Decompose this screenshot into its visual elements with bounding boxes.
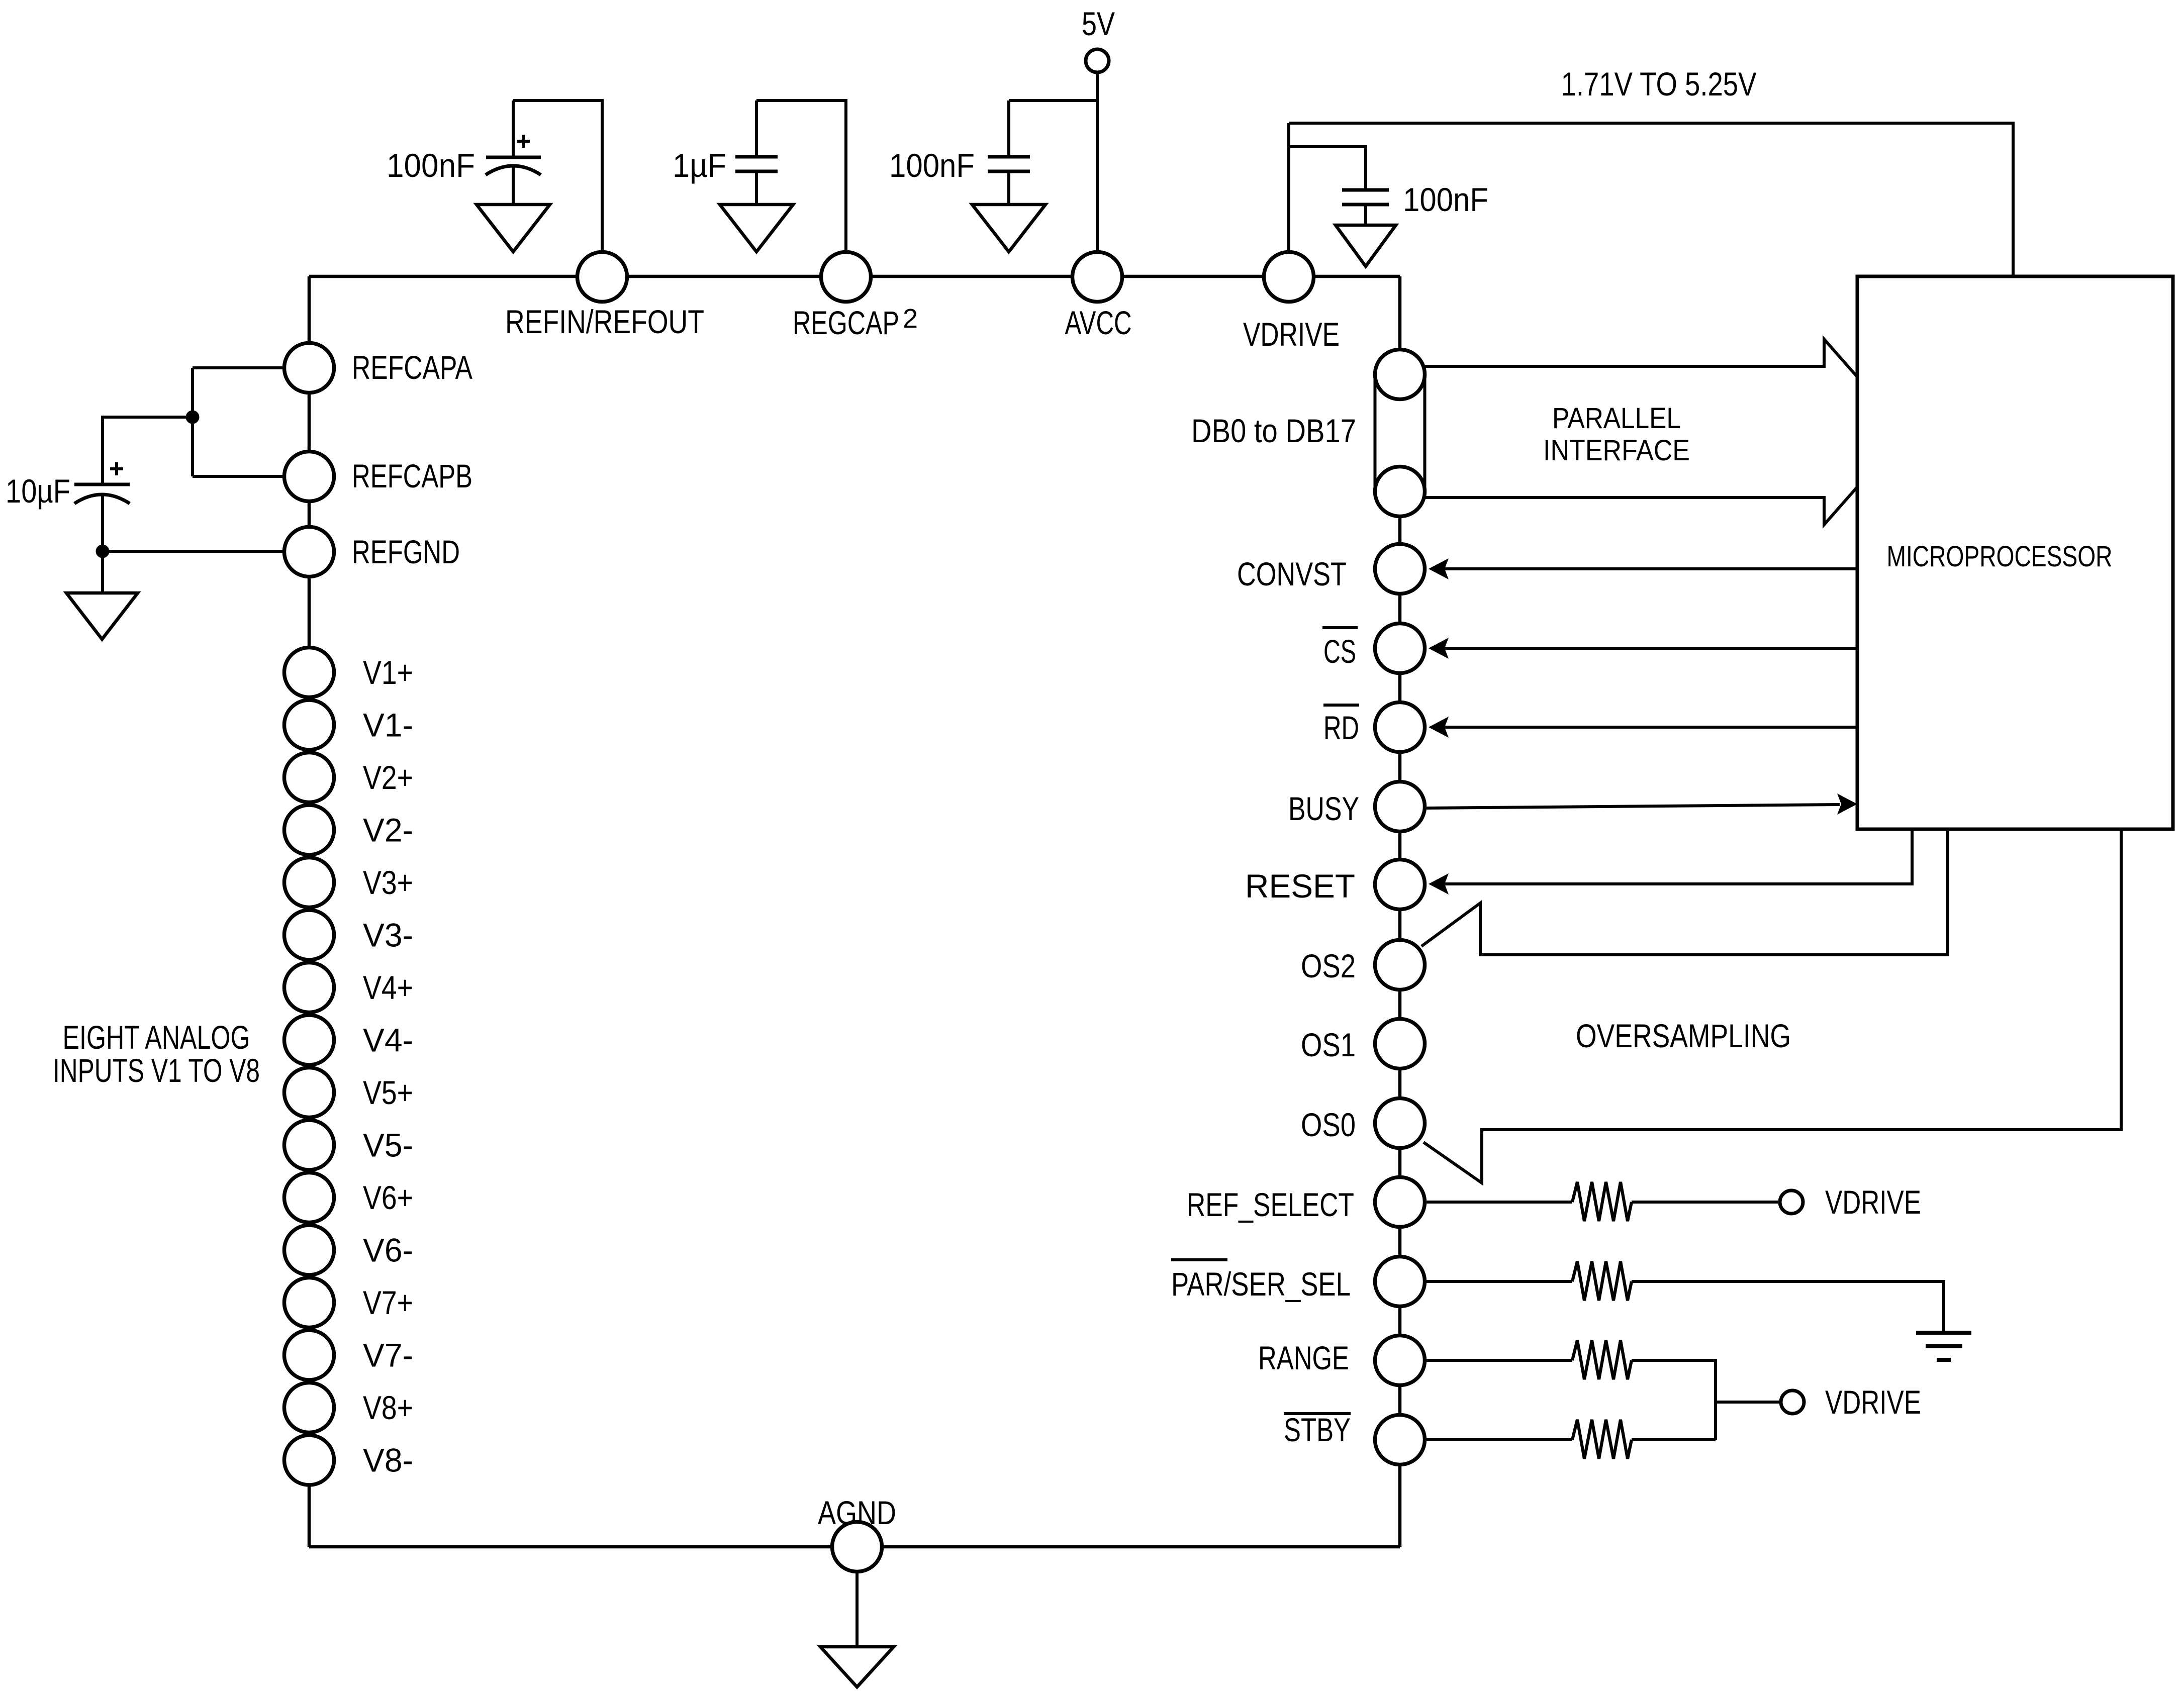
- wire REFIN/REFOUT loop: [513, 101, 602, 254]
- label OS0: [1301, 1106, 1356, 1143]
- ADC chip right edge upper (wire): [1398, 276, 1402, 374]
- label VDRIVE net 1: [1825, 1183, 1921, 1221]
- svg-text:OS1: OS1: [1301, 1026, 1356, 1063]
- svg-text:V2-: V2-: [363, 812, 413, 849]
- label REFIN/REFOUT: [505, 303, 704, 340]
- svg-text:V8-: V8-: [363, 1442, 413, 1479]
- svg-text:100nF: 100nF: [1403, 181, 1488, 218]
- svg-text:V7-: V7-: [363, 1337, 413, 1374]
- node VDRIVE terminal 1: [1780, 1190, 1803, 1214]
- svg-text:V5-: V5-: [363, 1127, 413, 1164]
- svg-text:PAR/SER_SEL: PAR/SER_SEL: [1171, 1265, 1351, 1303]
- svg-text:REFCAPB: REFCAPB: [352, 457, 472, 494]
- label V7+: [363, 1284, 413, 1321]
- pin V4-: [284, 1015, 334, 1065]
- svg-text:1.71V TO 5.25V: 1.71V TO 5.25V: [1561, 65, 1757, 103]
- label VDRIVE top: [1243, 316, 1340, 353]
- pin OS1: [1375, 1019, 1425, 1069]
- wire REFCAP bracket: [191, 368, 194, 476]
- microprocessor box: [1857, 276, 2173, 829]
- svg-text:REGCAP: REGCAP: [793, 304, 899, 341]
- label PAR/SER_SEL: [1171, 1265, 1351, 1303]
- label C3 100nF: [889, 147, 975, 184]
- wire REFGND stub: [103, 550, 285, 553]
- wire PAR/SER_SEL right: [1632, 1281, 1944, 1333]
- svg-text:10µF: 10µF: [6, 472, 70, 510]
- pin REFCAPA: [284, 343, 334, 393]
- pin RD: [1375, 703, 1425, 752]
- ADC chip left edge (wire): [308, 276, 311, 1547]
- label VDRIVE net 2: [1825, 1383, 1921, 1421]
- label AGND: [818, 1494, 896, 1531]
- label REGCAP: [793, 304, 899, 341]
- svg-text:MICROPROCESSOR: MICROPROCESSOR: [1887, 540, 2113, 573]
- wire RESET: [1444, 829, 1912, 884]
- svg-text:PARALLEL: PARALLEL: [1552, 402, 1681, 435]
- ADC chip top edge (wire): [309, 275, 1400, 278]
- pin V7+: [284, 1278, 334, 1328]
- pin V2-: [284, 805, 334, 855]
- label BUSY: [1288, 790, 1359, 827]
- label V1+: [363, 654, 413, 691]
- label PARALLEL: [1552, 402, 1681, 435]
- wire CONVST line: [1443, 567, 1857, 570]
- label V2-: [363, 812, 413, 849]
- label AVCC: [1065, 304, 1132, 341]
- pin CS: [1375, 624, 1425, 673]
- ADC chip right edge lower (wire): [1398, 491, 1402, 1547]
- label V5-: [363, 1127, 413, 1164]
- svg-text:INTERFACE: INTERFACE: [1543, 434, 1690, 467]
- wire REF_SELECT left: [1425, 1201, 1572, 1204]
- svg-text:V3-: V3-: [363, 917, 413, 954]
- pin AGND: [832, 1522, 882, 1572]
- arrowhead CS: [1429, 638, 1449, 659]
- wire OS2 bus arrow: [1421, 829, 1948, 955]
- resistor R4: [1572, 1420, 1632, 1459]
- overline RD: [1323, 704, 1359, 707]
- label REF_SELECT: [1187, 1186, 1354, 1223]
- label OS2: [1301, 947, 1356, 984]
- svg-text:5V: 5V: [1082, 5, 1115, 42]
- svg-text:CS: CS: [1323, 633, 1356, 670]
- capacitor C1 100nF (polarized): [486, 157, 541, 205]
- pin DB bus upper: [1375, 350, 1425, 400]
- svg-text:OS2: OS2: [1301, 947, 1356, 984]
- overline STBY: [1284, 1412, 1351, 1415]
- capacitor C4 100nF: [1342, 190, 1389, 225]
- ADC chip bottom edge (wire): [309, 1545, 1400, 1549]
- pin V6+: [284, 1173, 334, 1223]
- label C1 100nF: [387, 147, 475, 184]
- wire PAR/SER_SEL left: [1425, 1280, 1572, 1283]
- svg-text:AVCC: AVCC: [1065, 304, 1132, 341]
- svg-text:V1-: V1-: [363, 707, 413, 744]
- wire C3 top lead: [1007, 101, 1010, 157]
- label C5 10µF: [6, 472, 70, 510]
- pin BUSY: [1375, 782, 1425, 832]
- capacitor C3 100nF: [988, 157, 1030, 205]
- wire REFCAPB stub: [193, 475, 285, 478]
- svg-text:REFGND: REFGND: [352, 533, 460, 570]
- svg-text:RANGE: RANGE: [1258, 1339, 1349, 1376]
- pin REFGND: [284, 527, 334, 577]
- label REGCAP superscript 2: [903, 304, 918, 334]
- svg-text:V4-: V4-: [363, 1022, 413, 1059]
- svg-text:RD: RD: [1323, 709, 1359, 746]
- svg-text:V7+: V7+: [363, 1284, 413, 1321]
- arrowhead BUSY: [1837, 793, 1857, 815]
- wire 10uF branch: [103, 417, 193, 484]
- wire C2 top lead: [755, 101, 758, 157]
- ground G6: [820, 1647, 894, 1687]
- pin REFIN/REFOUT: [578, 252, 627, 302]
- node VDRIVE terminal 2: [1781, 1390, 1804, 1414]
- junction dot A: [186, 411, 200, 424]
- svg-text:BUSY: BUSY: [1288, 790, 1359, 827]
- label C4 100nF: [1403, 181, 1488, 218]
- pin V3+: [284, 858, 334, 908]
- svg-text:V4+: V4+: [363, 969, 413, 1006]
- pin V8-: [284, 1435, 334, 1485]
- ground G2: [720, 205, 793, 252]
- svg-text:V1+: V1+: [363, 654, 413, 691]
- ground G4: [1336, 225, 1396, 266]
- label V8-: [363, 1442, 413, 1479]
- label V3+: [363, 864, 413, 901]
- label C2 1µF: [673, 147, 726, 184]
- svg-text:OVERSAMPLING: OVERSAMPLING: [1576, 1017, 1791, 1054]
- resistor R3: [1572, 1340, 1632, 1379]
- svg-text:V6+: V6+: [363, 1179, 413, 1216]
- wire bus tangent left: [1374, 374, 1377, 491]
- resistor R1: [1572, 1182, 1632, 1221]
- label OS1: [1301, 1026, 1356, 1063]
- wire VDRIVE2 stub: [1716, 1401, 1781, 1404]
- label 5V: [1082, 5, 1115, 42]
- ground G1: [477, 205, 550, 252]
- svg-text:V2+: V2+: [363, 759, 413, 796]
- svg-text:V3+: V3+: [363, 864, 413, 901]
- pin DB bus lower: [1375, 467, 1425, 517]
- ground G7 (earth): [1916, 1333, 1971, 1360]
- pin V7-: [284, 1330, 334, 1380]
- node 5V terminal: [1086, 49, 1109, 72]
- plus sign C5: [110, 462, 123, 475]
- svg-text:V6-: V6-: [363, 1232, 413, 1269]
- label REFCAPB: [352, 457, 472, 494]
- svg-text:REF_SELECT: REF_SELECT: [1187, 1186, 1354, 1223]
- label 1.71V TO 5.25V: [1561, 65, 1757, 103]
- label V6+: [363, 1179, 413, 1216]
- pin V1+: [284, 648, 334, 698]
- svg-text:100nF: 100nF: [387, 147, 475, 184]
- pin VDRIVE: [1264, 252, 1314, 302]
- pin V3-: [284, 910, 334, 960]
- svg-text:AGND: AGND: [818, 1494, 896, 1531]
- pin V5-: [284, 1120, 334, 1170]
- svg-text:1µF: 1µF: [673, 147, 726, 184]
- pin REFCAPB: [284, 452, 334, 502]
- svg-text:2: 2: [903, 304, 918, 334]
- pin V5+: [284, 1068, 334, 1118]
- ground G3: [972, 205, 1046, 252]
- pin REF_SELECT: [1375, 1177, 1425, 1227]
- arrowhead RESET: [1429, 873, 1449, 894]
- pin REGCAP: [821, 252, 871, 302]
- wire CS line: [1443, 647, 1857, 650]
- svg-text:REFIN/REFOUT: REFIN/REFOUT: [505, 303, 704, 340]
- label V5+: [363, 1074, 413, 1111]
- svg-text:STBY: STBY: [1284, 1411, 1351, 1448]
- pin OS2: [1375, 940, 1425, 990]
- pin PAR/SER_SEL: [1375, 1257, 1425, 1307]
- wire RANGE right: [1632, 1360, 1716, 1440]
- junction dot B: [96, 545, 110, 558]
- label EIGHT ANALOG INPUTS line2: [53, 1052, 260, 1089]
- svg-text:100nF: 100nF: [889, 147, 975, 184]
- label RD: [1323, 709, 1359, 746]
- wire C1 top lead: [512, 101, 515, 159]
- label RESET: [1245, 867, 1355, 905]
- label STBY: [1284, 1411, 1351, 1448]
- svg-text:INPUTS V1 TO V8: INPUTS V1 TO V8: [53, 1052, 260, 1089]
- plus sign C1: [517, 135, 530, 148]
- label V4+: [363, 969, 413, 1006]
- svg-text:EIGHT ANALOG: EIGHT ANALOG: [63, 1019, 250, 1056]
- label REFGND: [352, 533, 460, 570]
- capacitor C5 10µF (polarized): [74, 484, 130, 593]
- label V2+: [363, 759, 413, 796]
- wire 5V supply: [1096, 72, 1099, 254]
- pin CONVST: [1375, 544, 1425, 594]
- svg-text:OS0: OS0: [1301, 1106, 1356, 1143]
- wire AVCC loop: [1009, 99, 1097, 102]
- pin RANGE: [1375, 1336, 1425, 1385]
- wire REFCAPA stub: [193, 366, 285, 369]
- wire VDRIVE stub: [1287, 123, 1290, 254]
- label V6-: [363, 1232, 413, 1269]
- wire BUSY line: [1427, 805, 1840, 808]
- pin OS0: [1375, 1099, 1425, 1148]
- svg-text:V8+: V8+: [363, 1389, 413, 1426]
- pin RESET: [1375, 860, 1425, 910]
- svg-text:DB0 to DB17: DB0 to DB17: [1191, 412, 1356, 449]
- label V3-: [363, 917, 413, 954]
- pin V4+: [284, 963, 334, 1013]
- wire bus tangent right: [1423, 374, 1427, 491]
- label OVERSAMPLING: [1576, 1017, 1791, 1054]
- wire VDRIVE to microprocessor 1.71V-5.25V: [1289, 123, 2013, 276]
- label CONVST: [1237, 555, 1347, 592]
- wire AGND ground stub: [856, 1572, 859, 1647]
- svg-text:REFCAPA: REFCAPA: [352, 349, 472, 386]
- wire REGCAP loop: [756, 101, 846, 254]
- arrowhead RD: [1429, 717, 1449, 738]
- ground G5: [66, 593, 138, 639]
- pin AVCC: [1073, 252, 1122, 302]
- pin V8+: [284, 1383, 334, 1433]
- overline PAR: [1171, 1258, 1227, 1261]
- label DB0 to DB17: [1191, 412, 1356, 449]
- svg-text:VDRIVE: VDRIVE: [1825, 1183, 1921, 1221]
- wire STBY right: [1632, 1438, 1716, 1441]
- svg-text:RESET: RESET: [1245, 867, 1355, 905]
- pin V1-: [284, 700, 334, 750]
- wire C4 branch: [1289, 147, 1366, 190]
- wire bus upper line with arrow half: [1425, 339, 1857, 377]
- overline CS: [1322, 626, 1358, 629]
- capacitor C2 1µF: [735, 157, 778, 205]
- svg-text:VDRIVE: VDRIVE: [1825, 1383, 1921, 1421]
- wire RD line: [1443, 726, 1857, 729]
- svg-text:VDRIVE: VDRIVE: [1243, 316, 1340, 353]
- svg-text:V5+: V5+: [363, 1074, 413, 1111]
- label INTERFACE: [1543, 434, 1690, 467]
- wire bus lower line with arrow half: [1425, 487, 1857, 525]
- wire OS0 bus arrow: [1423, 829, 2121, 1183]
- label EIGHT ANALOG INPUTS line1: [63, 1019, 250, 1056]
- resistor R2: [1572, 1261, 1632, 1301]
- label V1-: [363, 707, 413, 744]
- arrowhead CONVST: [1429, 558, 1449, 579]
- label V4-: [363, 1022, 413, 1059]
- label V8+: [363, 1389, 413, 1426]
- label V7-: [363, 1337, 413, 1374]
- svg-text:CONVST: CONVST: [1237, 555, 1347, 592]
- pin V2+: [284, 753, 334, 803]
- wire STBY left: [1425, 1438, 1572, 1441]
- label CS: [1323, 633, 1356, 670]
- wire RANGE left: [1425, 1359, 1572, 1362]
- wire REF_SELECT right: [1632, 1201, 1780, 1204]
- label REFCAPA: [352, 349, 472, 386]
- label RANGE: [1258, 1339, 1349, 1376]
- pin STBY: [1375, 1415, 1425, 1465]
- pin V6-: [284, 1225, 334, 1275]
- label MICROPROCESSOR: [1887, 540, 2113, 573]
